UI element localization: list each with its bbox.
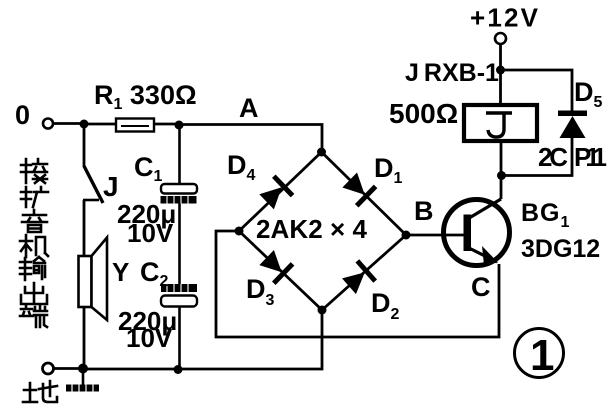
hanzi chu (out) [21,283,47,304]
svg-text:1: 1 [530,331,554,380]
diode D2 [340,261,375,296]
wire [178,204,181,285]
bridge edge wire top-right [322,152,407,235]
svg-text:0: 0 [15,100,30,130]
wire switch branch [83,124,86,167]
node bridge top [317,148,326,157]
wire [83,307,86,369]
wire node A [179,125,322,153]
hanzi jie (connect) [21,159,47,183]
svg-text:D5: D5 [574,77,603,111]
wire [500,141,503,175]
svg-text:Y: Y [112,257,129,287]
wire [84,123,116,126]
switch J contact [83,199,99,202]
svg-text:D1: D1 [374,153,403,187]
label J (relay) [486,113,512,137]
wire D5 branch bottom [502,138,572,176]
node junction +12V/D5 top [496,66,505,75]
hanzi ji (machine) [20,235,48,257]
svg-text:500Ω: 500Ω [389,98,458,129]
svg-text:C1: C1 [134,152,163,185]
svg-text:10V: 10V [127,218,174,248]
wire [83,200,86,257]
node bridge bottom [318,306,327,315]
diode D5 [558,111,587,139]
capacitor C2 [161,284,197,370]
wire D5 branch top [501,70,573,111]
node junction at C1 top [175,121,184,130]
switch J blade [84,166,103,203]
bridge edge wire right-bottom [322,235,406,310]
node bridge right (B) [402,231,411,240]
node bridge left [235,227,244,236]
svg-text:P11: P11 [574,142,607,172]
bridge edge wire bottom-left [239,231,322,310]
svg-text:J RXB-1: J RXB-1 [405,59,499,87]
svg-text:D3: D3 [246,274,275,309]
diode D1 [340,170,375,205]
svg-text:10V: 10V [126,323,173,353]
bridge edge wire left-top [239,152,322,231]
node junction at R1 left [80,120,89,129]
svg-text:J: J [103,171,119,202]
resistor R1 [116,119,154,132]
svg-text:D4: D4 [227,150,256,184]
wire emitter rail [216,231,499,337]
wire [54,367,83,370]
node junction collector/relay/D5 [497,171,506,180]
terminal 0 (input) [43,119,53,129]
wire collector [500,175,503,199]
svg-text:A: A [239,93,259,123]
node junction speaker/ground rail [78,364,88,374]
svg-text:+12V: +12V [470,3,539,33]
wire base [406,234,464,237]
Chinese vertical label: connect to PA output [20,159,57,402]
svg-text:3DG12: 3DG12 [521,235,600,263]
hanzi shu (output/transport) [20,257,45,280]
wire [154,123,179,126]
svg-text:R1 330Ω: R1 330Ω [94,80,197,113]
hanzi kuo (amplify) [21,187,48,207]
terminal +12V [495,33,506,44]
speaker Y [79,238,108,321]
wire [499,44,502,105]
terminal ground [43,363,54,374]
hanzi yin (sound) [22,210,47,232]
svg-text:D2: D2 [371,288,400,323]
capacitor C1 [161,125,198,204]
wire [54,122,85,125]
diode D3 [257,248,292,283]
svg-text:2C: 2C [538,142,568,172]
ground symbol [66,369,99,392]
hanzi duan (end/terminal) [20,305,47,327]
svg-text:B: B [414,196,434,226]
hanzi di (ground) [23,381,57,402]
svg-text:C: C [471,272,491,302]
svg-text:C2: C2 [140,257,169,290]
figure number circle 1 [515,329,564,378]
wire ground rail [83,310,322,369]
svg-text:2AK2 × 4: 2AK2 × 4 [256,214,368,244]
node junction C2 bottom [174,365,183,374]
svg-text:BG1: BG1 [521,199,570,231]
relay coil J box [464,105,537,141]
diode D4 [257,176,292,211]
transistor BG1 [444,199,510,266]
